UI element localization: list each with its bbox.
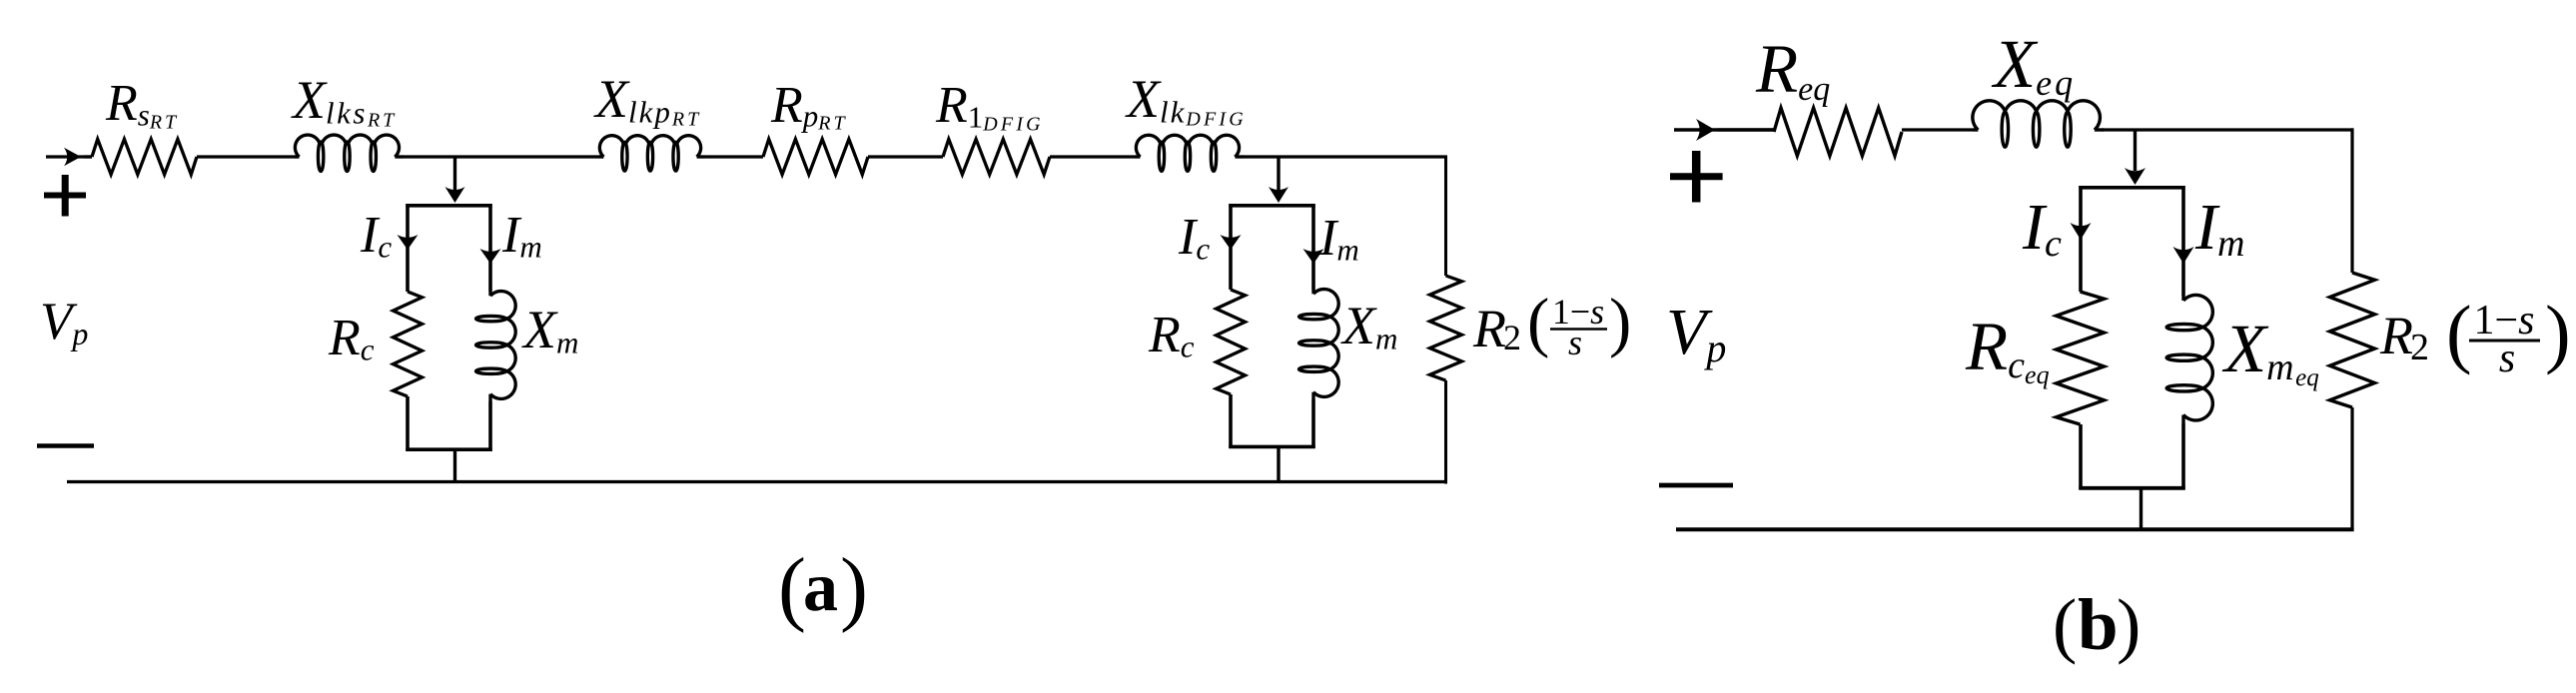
resistor Rp_RT: [763, 139, 868, 174]
svg-text:XlkDFIG: XlkDFIG: [1125, 69, 1247, 131]
minus terminal (b): [1659, 483, 1733, 488]
minus terminal (a): [37, 443, 94, 448]
resistor Rc (a2): [1217, 290, 1246, 394]
branch left stem upper + current arrow Ic (b): [2079, 186, 2083, 292]
svg-text:Im: Im: [1318, 210, 1359, 268]
magnetizing branch bottom bar (b): [2079, 486, 2184, 490]
wire Xlk to R2 corner across node 2: [1244, 155, 1447, 158]
plus terminal (b): [1670, 173, 1723, 180]
wire Rp to R1: [868, 155, 943, 158]
svg-text:): ): [2117, 584, 2141, 665]
source current arrow (a): [46, 155, 92, 158]
branch right stem lower (b): [2181, 423, 2185, 490]
branch 1 left stem upper + current arrow Ic: [406, 204, 410, 292]
node 1 arrow into magnetizing branch: [453, 157, 456, 190]
branch 2 left stem upper + current arrow Ic: [1229, 204, 1233, 290]
wire arrow to Rs (a): [84, 155, 92, 158]
svg-text:Xmeq: Xmeq: [2221, 311, 2319, 391]
svg-text:Vp: Vp: [1666, 296, 1726, 370]
svg-text:): ): [1609, 286, 1631, 359]
resistor R1_DFIG: [943, 139, 1050, 174]
resistor Rc (a1): [394, 292, 423, 396]
wire Xlkp to Rp: [705, 155, 763, 158]
inductor Xlkp_RT: [598, 155, 603, 158]
wire R1 to Xlk: [1050, 155, 1135, 158]
resistor R2 slip (b): [2330, 273, 2375, 407]
branch 2 stub to bottom rail: [1277, 448, 1280, 483]
svg-text:Rceq: Rceq: [1965, 309, 2050, 389]
bottom rail (b): [1676, 527, 2354, 531]
bottom rail (a): [67, 480, 1447, 483]
svg-text:R1DFIG: R1DFIG: [935, 77, 1044, 136]
wire R2 branch top (b): [2350, 128, 2353, 273]
inductor Xm (a1): [488, 292, 491, 296]
inductor Xlk_DFIG: [1135, 155, 1140, 158]
resistor Rc_eq (b): [2057, 292, 2105, 424]
svg-text:Xm: Xm: [1340, 296, 1397, 356]
svg-text:Ic: Ic: [2022, 191, 2062, 265]
wire Req to Xeq: [1902, 128, 1973, 131]
svg-text:): ): [840, 541, 868, 634]
branch 1 right stem upper + current arrow Im: [488, 204, 492, 292]
svg-text:Im: Im: [2194, 191, 2244, 265]
svg-text:(: (: [2446, 290, 2472, 375]
node 2 arrow into magnetizing branch: [1277, 157, 1280, 190]
svg-text:s: s: [2499, 336, 2515, 381]
wire Xeq to R2 corner across node (b): [2103, 128, 2354, 131]
resistor Req: [1774, 108, 1902, 156]
svg-text:XlkpRT: XlkpRT: [593, 69, 701, 131]
svg-text:b: b: [2078, 584, 2119, 665]
branch 1 right stem lower: [488, 401, 492, 451]
branch 1 stub to bottom rail: [453, 451, 456, 483]
wire R2 branch bottom (b): [2350, 407, 2353, 531]
svg-text:Xm: Xm: [521, 300, 578, 360]
inductor Xlks_RT: [294, 155, 300, 158]
svg-text:): ): [2545, 290, 2571, 375]
svg-text:RpRT: RpRT: [770, 77, 848, 135]
inductor Xeq: [1973, 128, 1978, 131]
magnetizing branch 1 top bar: [406, 204, 491, 208]
svg-text:(: (: [2053, 584, 2077, 665]
magnetizing branch 2 top bar: [1229, 204, 1314, 208]
svg-text:R2: R2: [2379, 306, 2429, 368]
svg-text:(: (: [1527, 286, 1549, 359]
branch stub to bottom rail (b): [2140, 488, 2143, 530]
svg-text:(: (: [778, 541, 806, 634]
magnetizing branch 1 bottom bar: [406, 447, 491, 451]
wire arrow to Req (b): [1718, 128, 1774, 131]
svg-text:RsRT: RsRT: [105, 75, 179, 134]
svg-text:Rc: Rc: [328, 310, 375, 367]
svg-text:XlksRT: XlksRT: [291, 70, 397, 132]
svg-text:Xeq: Xeq: [1991, 26, 2076, 103]
magnetizing branch 2 bottom bar: [1229, 445, 1314, 449]
svg-text:Ic: Ic: [360, 207, 392, 265]
node arrow into magnetizing branch (b): [2134, 130, 2137, 171]
branch right stem upper + current arrow Im (b): [2181, 186, 2185, 296]
magnetizing branch top bar (b): [2079, 186, 2184, 190]
branch left stem lower (b): [2079, 424, 2083, 490]
wire R2 branch top (a): [1444, 156, 1447, 277]
svg-text:R2: R2: [1472, 299, 1521, 358]
branch 2 right stem lower: [1311, 399, 1315, 448]
inductor Xm_eq (b): [2181, 296, 2184, 301]
wire Xlks to Xlkp across node 1: [404, 155, 598, 158]
inductor Xm (a2): [1311, 290, 1314, 294]
plus terminal (a): [44, 193, 86, 199]
svg-text:Rc: Rc: [1148, 307, 1195, 364]
svg-text:Vp: Vp: [40, 293, 88, 351]
svg-text:Ic: Ic: [1178, 209, 1210, 267]
svg-text:a: a: [803, 549, 838, 626]
source current arrow (b): [1674, 128, 1774, 131]
branch 2 left stem lower: [1229, 394, 1233, 448]
resistor R2 slip (a): [1430, 276, 1462, 380]
wire R2 branch bottom (a): [1444, 380, 1447, 484]
resistor Rs_RT: [92, 139, 197, 174]
wire Rs to Xlks: [197, 155, 294, 158]
branch 1 left stem lower: [406, 396, 410, 451]
svg-text:Im: Im: [501, 207, 542, 265]
branch 2 right stem upper + current arrow Im: [1311, 204, 1315, 290]
svg-text:Req: Req: [1755, 31, 1830, 108]
svg-text:s: s: [1568, 323, 1582, 362]
